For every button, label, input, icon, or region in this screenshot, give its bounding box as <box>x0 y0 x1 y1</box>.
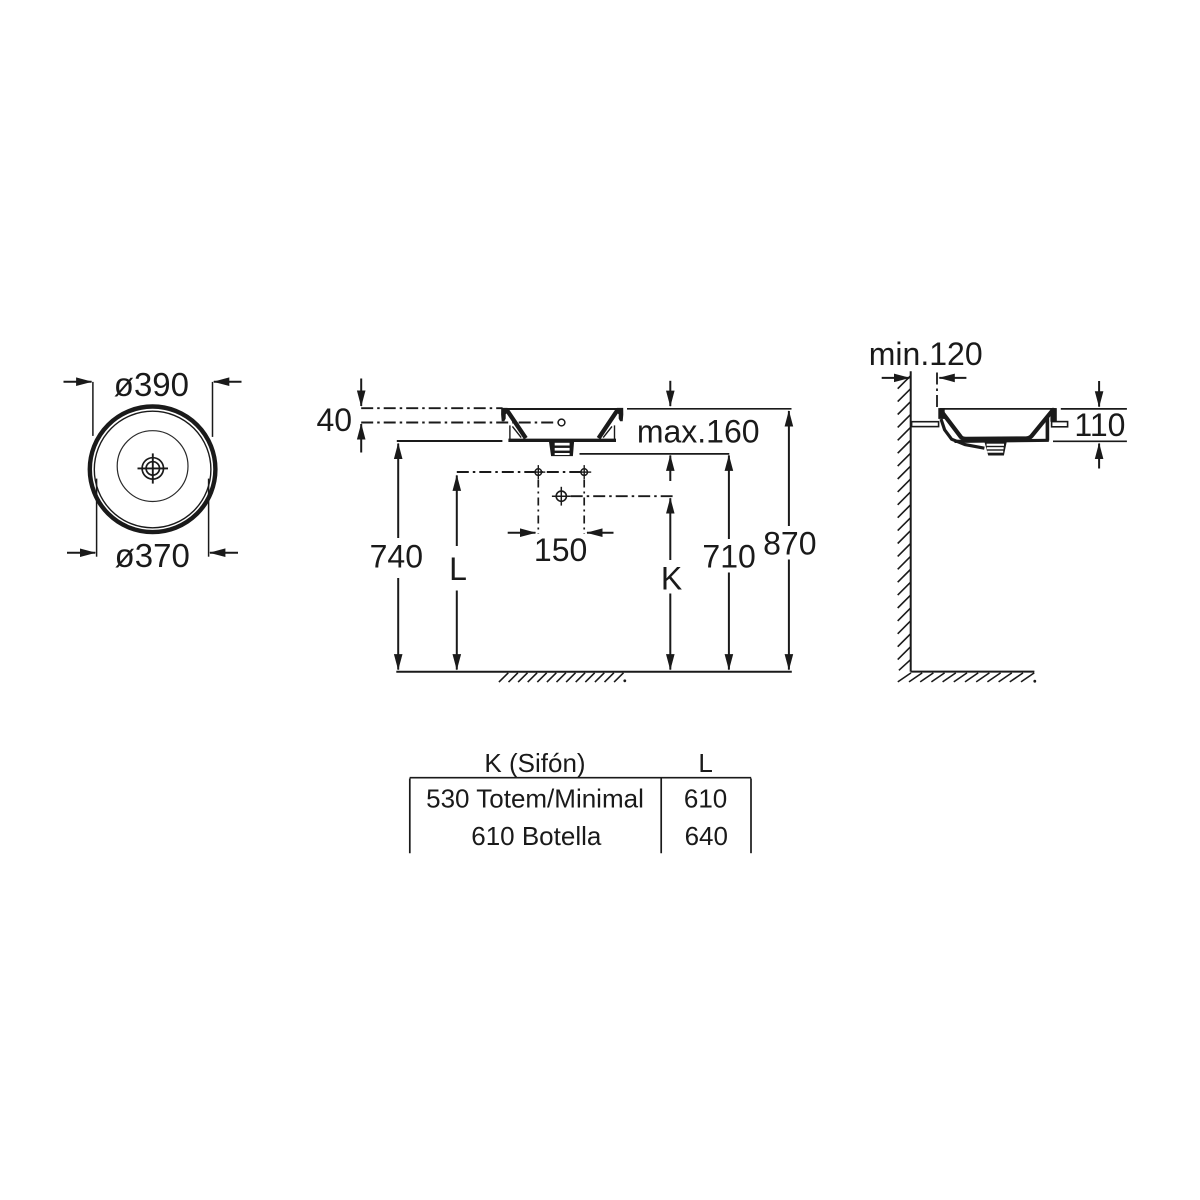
basin rim top line (front) <box>503 408 622 410</box>
dim K lower arrow <box>669 594 671 670</box>
svg-text:max.160: max.160 <box>637 413 760 449</box>
wall line <box>910 371 912 671</box>
dim 740 upper arrow <box>397 444 399 539</box>
wall hatching <box>898 376 911 670</box>
basin right bowl wall (front) <box>599 410 618 438</box>
L top dash-dot line to fixing holes <box>457 471 584 473</box>
floor hatching (front) <box>499 673 624 682</box>
svg-text:740: 740 <box>370 538 423 574</box>
dim 110 upper arrow <box>1098 381 1100 407</box>
drain symbol inner circle <box>146 462 159 475</box>
dim 710 lower arrow <box>728 573 730 670</box>
basin right web triangle (front) <box>603 425 614 439</box>
drain center crosshair <box>552 487 571 506</box>
basin rim top line (side) <box>940 408 1056 410</box>
dim L upper arrow <box>456 475 458 546</box>
dim 740 top reference line <box>397 440 503 442</box>
table left border <box>409 779 411 854</box>
dim 150 right arrow <box>587 532 614 534</box>
dim L lower arrow <box>456 591 458 670</box>
dim 40 lower arrow <box>360 424 362 453</box>
svg-text:530 Totem/Minimal: 530 Totem/Minimal <box>426 783 644 813</box>
dim 870 upper arrow <box>788 411 790 526</box>
basin right cap bar (side) <box>1050 408 1056 422</box>
basin left web triangle (front) <box>510 425 521 439</box>
drain siphon thread stripes (side) <box>987 444 1004 453</box>
svg-text:min.120: min.120 <box>869 336 983 372</box>
dim min120 left arrow <box>882 377 910 379</box>
dim 40 upper arrow <box>360 379 362 407</box>
fixing hole left drop dash-dot line <box>537 480 539 535</box>
basin bottom shell band (front) <box>508 439 616 442</box>
floor hatching (side) <box>898 673 1034 682</box>
left fixing bracket (side) <box>912 422 939 427</box>
svg-text:110: 110 <box>1074 407 1125 443</box>
dia390 left extension line <box>92 382 94 436</box>
rim level reference line right <box>627 408 792 410</box>
table header underline <box>410 777 752 779</box>
fixing hole right drop dash-dot line <box>583 480 585 535</box>
dim 150 left arrow <box>508 532 536 534</box>
dim K upper arrow <box>669 498 671 560</box>
svg-text:L: L <box>698 748 712 778</box>
floor hatching end dot (side) <box>1033 680 1036 683</box>
svg-text:610: 610 <box>684 783 727 813</box>
basin left cap bar (side) <box>938 408 944 419</box>
basin right web bar (side) <box>1046 417 1050 441</box>
overflow level dash-dot centerline (40 bottom) <box>361 422 557 424</box>
svg-text:40: 40 <box>317 402 353 438</box>
dia390 right extension line <box>212 382 214 437</box>
drain level reference line right <box>580 453 730 455</box>
dim max160 top arrow <box>669 381 671 406</box>
table middle divider <box>660 779 662 854</box>
basin outer rim circle (plan) <box>90 407 216 533</box>
dia390 right dimension arrow <box>214 381 242 383</box>
fixing hole crosshair right <box>577 465 591 479</box>
svg-text:710: 710 <box>702 539 755 575</box>
dia370 left dimension arrow <box>67 552 95 554</box>
basin left bowl wall (front) <box>507 410 526 438</box>
basin bottom shell band (side) <box>955 440 1049 441</box>
basin inner rim circle (plan) <box>94 411 211 528</box>
K level dash-dot line <box>571 495 673 497</box>
drain siphon thread stripes (front) <box>555 443 570 455</box>
dia370 right extension line <box>208 479 210 557</box>
basin left under-shell (side) <box>941 419 984 448</box>
right fixing bracket (side) <box>1052 422 1068 427</box>
drain symbol vertical crossline <box>152 453 154 483</box>
drain siphon body (side) <box>984 441 1007 456</box>
dim 110 top reference line <box>1061 408 1127 410</box>
dim 110 bottom reference line <box>1053 440 1127 442</box>
min120 extension dash-dot line <box>936 373 938 408</box>
floor hatching end dot (front) <box>623 679 626 682</box>
bowl bottom circle (plan) <box>117 431 188 502</box>
rim level dash-dot centerline (40 top) <box>361 407 502 409</box>
svg-text:L: L <box>449 551 467 587</box>
svg-text:870: 870 <box>763 526 816 562</box>
svg-text:640: 640 <box>685 821 728 851</box>
svg-text:K: K <box>661 561 682 597</box>
table right border <box>750 779 752 854</box>
drain siphon body (front) <box>549 440 574 456</box>
svg-text:150: 150 <box>534 532 587 568</box>
floor line (front) <box>396 671 792 673</box>
basin left rim hook (front) <box>501 408 507 421</box>
drain symbol horizontal crossline <box>138 467 169 469</box>
dim 110 lower arrow <box>1098 444 1100 469</box>
dia390 left dimension arrow <box>64 381 92 383</box>
dim 740 lower arrow <box>397 578 399 670</box>
dim min120 right arrow <box>939 377 966 379</box>
dim 870 lower arrow <box>788 560 790 670</box>
svg-text:ø370: ø370 <box>115 537 190 574</box>
svg-text:ø390: ø390 <box>114 366 189 403</box>
overflow hole circle (front) <box>558 419 565 426</box>
floor line (side) <box>911 671 1035 673</box>
dia370 left extension line <box>96 479 98 557</box>
basin right rim hook (front) <box>617 408 623 421</box>
basin bowl profile (side) <box>941 410 1053 439</box>
drain symbol outer circle <box>142 458 163 479</box>
dia370 right dimension arrow <box>210 552 238 554</box>
dim max160 bottom arrow <box>669 455 671 481</box>
dim 710 upper arrow <box>728 455 730 539</box>
svg-text:K (Sifón): K (Sifón) <box>484 748 585 778</box>
fixing hole crosshair left <box>531 465 545 479</box>
svg-text:610 Botella: 610 Botella <box>471 821 602 851</box>
